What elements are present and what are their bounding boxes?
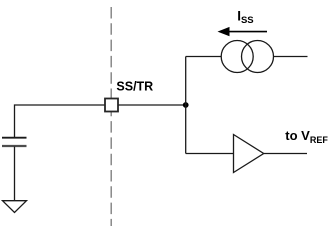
wire: left horizontal from capacitor corner to SS/TR pin <box>15 105 105 138</box>
capacitor C (bottom plate) <box>2 145 27 147</box>
node junction dot <box>183 102 189 108</box>
wire: vertical between current source branch and buffer branch <box>185 57 187 154</box>
current source I1 (overlapping circles) <box>221 41 253 73</box>
wire: junction up to current source <box>186 56 222 58</box>
pin SS/TR (square terminal) <box>105 99 118 112</box>
wire: buffer output <box>264 153 307 155</box>
wire: junction to buffer input <box>186 153 234 155</box>
dashed boundary line <box>110 7 112 226</box>
current direction arrow <box>228 31 268 33</box>
wire: current source to supply (right stub) <box>274 56 308 58</box>
wire: capacitor to ground <box>14 147 16 201</box>
capacitor C (top plate) <box>2 137 27 139</box>
svg-text:SS/TR: SS/TR <box>116 80 153 94</box>
op-amp buffer U1 (unity-gain triangle) <box>234 135 264 173</box>
wire: SS/TR pin to junction node <box>119 104 187 106</box>
ground <box>3 201 27 213</box>
